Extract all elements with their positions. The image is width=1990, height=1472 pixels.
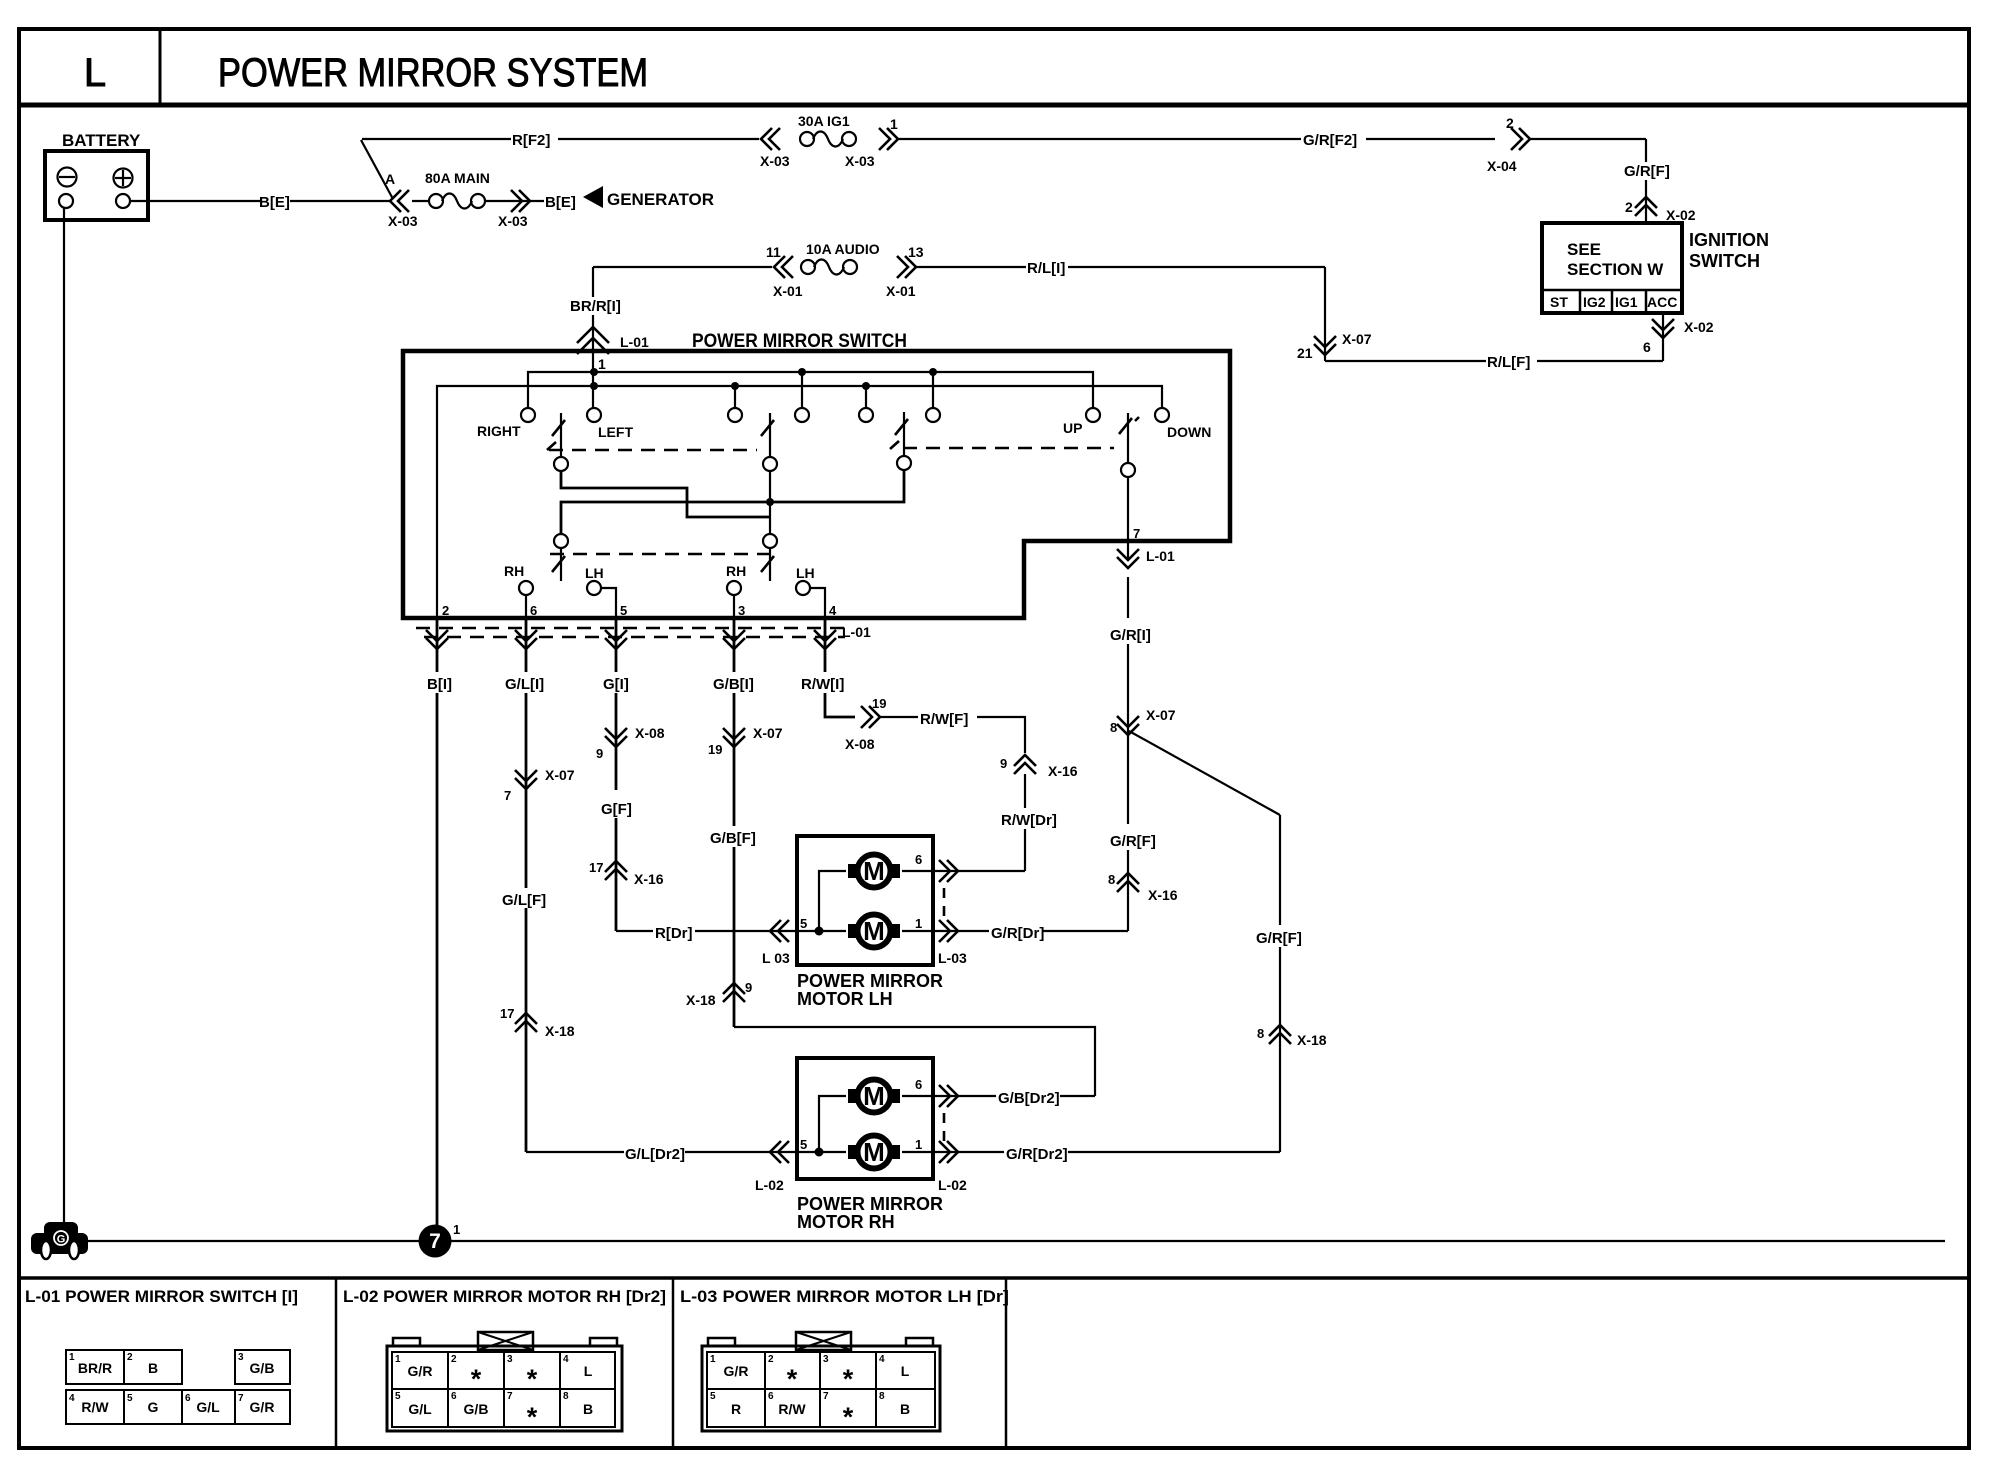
svg-text:5: 5 xyxy=(127,1393,133,1404)
svg-text:L 03: L 03 xyxy=(762,950,790,966)
power mirror motor LH xyxy=(797,836,1025,1009)
pin 7 G/R[I] inside box xyxy=(1128,477,1140,560)
svg-text:5: 5 xyxy=(710,1391,716,1402)
svg-text:X-07: X-07 xyxy=(1146,707,1176,723)
svg-text:X-03: X-03 xyxy=(498,213,528,229)
svg-text:L-03 POWER MIRROR MOTOR LH [Dr: L-03 POWER MIRROR MOTOR LH [Dr] xyxy=(680,1287,1009,1306)
svg-text:R/L[I]: R/L[I] xyxy=(1027,260,1065,277)
svg-text:SEE: SEE xyxy=(1567,240,1601,259)
connector X-04 pin 2 xyxy=(1511,128,1530,150)
svg-text:IG1: IG1 xyxy=(1615,294,1638,310)
svg-text:ST: ST xyxy=(1550,294,1568,310)
svg-text:IGNITION: IGNITION xyxy=(1689,230,1769,250)
svg-text:9: 9 xyxy=(596,746,603,761)
svg-text:9: 9 xyxy=(1000,756,1007,771)
coupler dashed lower xyxy=(550,553,779,555)
svg-text:13: 13 xyxy=(908,244,924,260)
svg-text:*: * xyxy=(843,1364,854,1394)
svg-text:2: 2 xyxy=(1506,115,1514,131)
svg-text:*: * xyxy=(471,1364,482,1394)
connector L-01 pin 7 arrow xyxy=(1117,548,1175,568)
svg-text:1: 1 xyxy=(915,916,922,931)
svg-text:3: 3 xyxy=(507,1354,513,1365)
pin 6 stub xyxy=(525,595,527,618)
svg-text:LH: LH xyxy=(796,565,815,581)
svg-text:G/L[I]: G/L[I] xyxy=(505,676,544,693)
svg-text:G[F]: G[F] xyxy=(601,801,632,818)
svg-text:30A IG1: 30A IG1 xyxy=(798,113,850,129)
svg-text:G/R[F]: G/R[F] xyxy=(1624,163,1670,180)
svg-text:X-16: X-16 xyxy=(1148,887,1178,903)
svg-text:G/R[I]: G/R[I] xyxy=(1110,627,1151,644)
svg-text:LH: LH xyxy=(585,565,604,581)
wire R/L[I] audio feed xyxy=(593,260,1325,277)
svg-text:SWITCH: SWITCH xyxy=(1689,251,1760,271)
svg-text:10A AUDIO: 10A AUDIO xyxy=(806,241,880,257)
svg-text:R/W: R/W xyxy=(81,1399,109,1415)
svg-text:X-18: X-18 xyxy=(545,1023,575,1039)
svg-text:R[F2]: R[F2] xyxy=(512,132,550,149)
svg-text:X-02: X-02 xyxy=(1684,319,1714,335)
svg-text:5: 5 xyxy=(620,603,627,618)
connector X-03 xyxy=(511,190,530,212)
svg-text:G/L: G/L xyxy=(408,1401,432,1417)
svg-text:G/R: G/R xyxy=(250,1399,275,1415)
svg-text:R/W[I]: R/W[I] xyxy=(801,676,844,693)
svg-text:X-07: X-07 xyxy=(545,767,575,783)
svg-text:G/L[Dr2]: G/L[Dr2] xyxy=(625,1146,685,1163)
svg-text:11: 11 xyxy=(766,244,781,260)
wire B[E] battery to generator xyxy=(130,194,576,211)
wire zigzag from blade1 common xyxy=(561,471,770,517)
svg-text:B: B xyxy=(583,1401,593,1417)
svg-text:6: 6 xyxy=(1643,339,1651,355)
wire G/R[F] right branch xyxy=(1129,731,1327,1152)
svg-text:8: 8 xyxy=(1257,1026,1264,1041)
svg-text:X-01: X-01 xyxy=(886,283,916,299)
connector table band xyxy=(19,1278,1969,1447)
svg-text:7: 7 xyxy=(429,1230,441,1253)
svg-text:2: 2 xyxy=(451,1354,457,1365)
svg-text:R/W[F]: R/W[F] xyxy=(920,711,968,728)
svg-text:R: R xyxy=(731,1401,741,1417)
fuse 30A IG1 xyxy=(800,132,856,147)
svg-text:G/B[F]: G/B[F] xyxy=(710,830,756,847)
svg-text:G/R[F]: G/R[F] xyxy=(1256,930,1302,947)
svg-text:G/R[F2]: G/R[F2] xyxy=(1303,132,1357,149)
connector L-01 pin 1 xyxy=(577,327,609,354)
bus 1 (pin 1 feed) xyxy=(528,368,1093,409)
svg-text:L-01: L-01 xyxy=(842,624,871,640)
connector X-01 pin 13 xyxy=(897,256,916,278)
wire R[F2] xyxy=(362,132,759,149)
svg-text:2: 2 xyxy=(442,603,449,618)
power mirror motor RH xyxy=(797,1058,967,1232)
svg-text:G/B[Dr2]: G/B[Dr2] xyxy=(998,1090,1060,1107)
svg-text:4: 4 xyxy=(563,1354,569,1365)
bus 2 (pin 2 feed) xyxy=(437,382,1162,618)
junction A diagonal from R[F2] xyxy=(361,140,393,199)
ignition switch xyxy=(1542,223,1769,313)
svg-text:X-16: X-16 xyxy=(634,871,664,887)
svg-text:POWER MIRROR: POWER MIRROR xyxy=(797,971,943,991)
svg-text:17: 17 xyxy=(500,1006,514,1021)
svg-text:G/R[Dr]: G/R[Dr] xyxy=(991,925,1044,942)
svg-text:*: * xyxy=(843,1402,854,1432)
svg-text:*: * xyxy=(787,1364,798,1394)
switch blade 3 (middle) xyxy=(890,412,908,456)
svg-text:6: 6 xyxy=(451,1391,457,1402)
svg-text:2: 2 xyxy=(127,1352,133,1363)
svg-text:6: 6 xyxy=(185,1393,191,1404)
wire from node 7 to right xyxy=(451,1240,1945,1242)
svg-text:ACC: ACC xyxy=(1647,294,1677,310)
wire R/W[I] / R/W[F] / R/W[Dr] xyxy=(801,618,1078,871)
svg-text:IG2: IG2 xyxy=(1583,294,1606,310)
svg-text:X-02: X-02 xyxy=(1666,207,1696,223)
svg-text:8: 8 xyxy=(1108,872,1115,887)
connector X-02 pin 6 xyxy=(1662,313,1664,361)
svg-text:B: B xyxy=(148,1360,158,1376)
svg-text:4: 4 xyxy=(879,1354,885,1365)
svg-text:6: 6 xyxy=(915,852,922,867)
connector L-02 drawing xyxy=(387,1332,622,1432)
connector X-02 pin 2 xyxy=(1635,197,1657,216)
wire battery negative to ground xyxy=(63,208,65,1226)
svg-text:19: 19 xyxy=(708,742,722,757)
svg-text:L-02: L-02 xyxy=(755,1177,784,1193)
svg-text:8: 8 xyxy=(1110,720,1117,735)
switch blade 2 (right/left LH) xyxy=(761,413,774,457)
svg-text:3: 3 xyxy=(238,1352,244,1363)
svg-text:6: 6 xyxy=(915,1077,922,1092)
svg-text:8: 8 xyxy=(879,1391,885,1402)
svg-text:X-08: X-08 xyxy=(845,736,875,752)
svg-text:R/L[F]: R/L[F] xyxy=(1487,354,1530,371)
wire BR/R[I] xyxy=(570,267,621,415)
svg-text:X-03: X-03 xyxy=(845,153,875,169)
svg-text:L-02 POWER MIRROR MOTOR RH [Dr: L-02 POWER MIRROR MOTOR RH [Dr2] xyxy=(343,1287,666,1306)
svg-text:7: 7 xyxy=(1133,526,1140,541)
svg-text:80A MAIN: 80A MAIN xyxy=(425,170,490,186)
wire G/B[Dr2] xyxy=(958,1090,1095,1107)
wire G/R[F2] xyxy=(898,132,1495,149)
svg-text:L: L xyxy=(84,51,106,95)
connector X-03 pin A xyxy=(390,190,409,212)
connector X-01 pin 11 xyxy=(774,256,793,278)
pin 5 stub xyxy=(601,588,616,618)
svg-text:X-08: X-08 xyxy=(635,725,665,741)
wire ground bus xyxy=(88,1240,419,1242)
pin numbers at box bottom xyxy=(442,603,837,618)
wire R/L[F] xyxy=(1325,354,1663,371)
svg-text:G/R: G/R xyxy=(408,1363,433,1379)
svg-text:G[I]: G[I] xyxy=(603,676,629,693)
svg-text:2: 2 xyxy=(1625,199,1633,215)
output circles xyxy=(519,581,810,595)
svg-text:5: 5 xyxy=(800,1137,807,1152)
generator xyxy=(583,186,714,209)
common circles under blades xyxy=(554,456,1135,477)
svg-text:L-01: L-01 xyxy=(620,334,649,350)
lower blade 1 xyxy=(552,548,565,581)
svg-text:X-18: X-18 xyxy=(1297,1032,1327,1048)
svg-text:1: 1 xyxy=(710,1354,716,1365)
svg-text:G: G xyxy=(57,1234,66,1246)
svg-text:G/B: G/B xyxy=(464,1401,489,1417)
svg-text:6: 6 xyxy=(530,603,537,618)
svg-text:X-07: X-07 xyxy=(753,725,783,741)
svg-text:1: 1 xyxy=(890,116,898,132)
svg-text:*: * xyxy=(527,1402,538,1432)
coupler dashed group 1 xyxy=(549,449,757,451)
connector X-03 pin (30A IG1 left) xyxy=(761,128,780,150)
svg-text:2: 2 xyxy=(768,1354,774,1365)
wire G/R[Dr2] xyxy=(958,1146,1280,1163)
wire G/L[I] / G/L[F] / G/L[Dr2] xyxy=(500,618,797,1193)
svg-text:B[E]: B[E] xyxy=(259,194,290,211)
svg-text:GENERATOR: GENERATOR xyxy=(607,190,714,209)
svg-text:4: 4 xyxy=(829,603,837,618)
terminal circles upper row xyxy=(521,408,1169,422)
svg-text:RIGHT: RIGHT xyxy=(477,423,521,439)
svg-text:POWER MIRROR SYSTEM: POWER MIRROR SYSTEM xyxy=(218,51,648,95)
svg-text:7: 7 xyxy=(823,1391,829,1402)
fuse 10A AUDIO xyxy=(801,260,857,275)
switch blade 1 (right/left RH) xyxy=(547,413,565,457)
pin 3 stub xyxy=(733,595,735,618)
svg-text:1: 1 xyxy=(598,356,606,372)
svg-text:LEFT: LEFT xyxy=(598,424,633,440)
svg-text:BATTERY: BATTERY xyxy=(62,131,141,150)
svg-text:X-03: X-03 xyxy=(760,153,790,169)
svg-text:21: 21 xyxy=(1297,345,1313,361)
svg-text:7: 7 xyxy=(504,788,511,803)
wire lower feed line xyxy=(561,470,904,534)
connector X-07 pin 21 xyxy=(1297,267,1372,361)
svg-text:7: 7 xyxy=(238,1393,244,1404)
connector X-03 pin 1 xyxy=(879,128,898,150)
svg-text:MOTOR RH: MOTOR RH xyxy=(797,1212,895,1232)
lower tier circles xyxy=(554,534,777,548)
svg-text:B[I]: B[I] xyxy=(427,676,452,693)
svg-text:G: G xyxy=(148,1399,159,1415)
svg-text:3: 3 xyxy=(738,603,745,618)
svg-text:R/W: R/W xyxy=(778,1401,806,1417)
svg-text:4: 4 xyxy=(69,1393,75,1404)
connector L-01 pin table xyxy=(66,1350,290,1424)
lower blade 2 xyxy=(761,548,774,581)
svg-text:L-01: L-01 xyxy=(1146,548,1175,564)
svg-text:L-03: L-03 xyxy=(938,950,967,966)
svg-text:X-04: X-04 xyxy=(1487,158,1517,174)
svg-text:G/R: G/R xyxy=(724,1363,749,1379)
ground G (body ground) xyxy=(31,1222,88,1259)
svg-text:X-07: X-07 xyxy=(1342,331,1372,347)
svg-text:B: B xyxy=(900,1401,910,1417)
wire G/R[F] to ignition xyxy=(1530,139,1670,223)
svg-text:G/L: G/L xyxy=(196,1399,220,1415)
svg-text:B[E]: B[E] xyxy=(545,194,576,211)
svg-text:G/L[F]: G/L[F] xyxy=(502,892,546,909)
svg-text:L: L xyxy=(584,1363,593,1379)
svg-text:G/B[I]: G/B[I] xyxy=(713,676,754,693)
coupler dashed group 2 xyxy=(903,447,1114,449)
svg-text:X-01: X-01 xyxy=(773,283,803,299)
svg-text:A: A xyxy=(385,171,395,187)
svg-text:6: 6 xyxy=(768,1391,774,1402)
svg-text:MOTOR LH: MOTOR LH xyxy=(797,989,893,1009)
svg-text:5: 5 xyxy=(800,916,807,931)
svg-text:19: 19 xyxy=(872,696,886,711)
svg-text:3: 3 xyxy=(823,1354,829,1365)
svg-text:L-02: L-02 xyxy=(938,1177,967,1193)
svg-text:1: 1 xyxy=(69,1352,75,1363)
svg-text:X-03: X-03 xyxy=(388,213,418,229)
svg-text:G/R[Dr2]: G/R[Dr2] xyxy=(1006,1146,1068,1163)
wire G/R[I] pin7 column xyxy=(958,577,1178,942)
svg-text:RH: RH xyxy=(726,563,746,579)
svg-text:5: 5 xyxy=(395,1391,401,1402)
svg-text:DOWN: DOWN xyxy=(1167,424,1211,440)
svg-text:1: 1 xyxy=(915,1137,922,1152)
battery xyxy=(45,131,148,220)
connector L-01 multi arrows below box xyxy=(416,624,871,649)
fuse 80A MAIN xyxy=(429,194,485,209)
svg-text:G/R[F]: G/R[F] xyxy=(1110,833,1156,850)
svg-text:L-01 POWER MIRROR SWITCH [I]: L-01 POWER MIRROR SWITCH [I] xyxy=(25,1287,298,1306)
node 7 (splice) xyxy=(419,1222,461,1258)
svg-text:R/W[Dr]: R/W[Dr] xyxy=(1001,812,1057,829)
RH LH labels xyxy=(504,563,815,581)
switch position labels xyxy=(477,420,1211,440)
svg-text:1: 1 xyxy=(395,1354,401,1365)
svg-text:*: * xyxy=(527,1364,538,1394)
svg-text:7: 7 xyxy=(507,1391,513,1402)
svg-text:BR/R[I]: BR/R[I] xyxy=(570,298,621,315)
svg-text:UP: UP xyxy=(1063,420,1082,436)
svg-text:POWER MIRROR: POWER MIRROR xyxy=(797,1194,943,1214)
pin 4 stub xyxy=(810,588,825,618)
svg-text:R[Dr]: R[Dr] xyxy=(655,925,693,942)
connector L-03 drawing xyxy=(702,1332,940,1432)
svg-text:X-16: X-16 xyxy=(1048,763,1078,779)
svg-text:8: 8 xyxy=(563,1391,569,1402)
svg-text:9: 9 xyxy=(745,980,752,995)
svg-text:X-18: X-18 xyxy=(686,992,716,1008)
svg-text:L: L xyxy=(901,1363,910,1379)
wire B[I] xyxy=(427,618,452,1225)
wire G[I] / G[F] / R[Dr] xyxy=(589,618,797,966)
svg-text:17: 17 xyxy=(589,860,603,875)
switch blade 4 (up/down) xyxy=(1119,413,1139,463)
svg-text:1: 1 xyxy=(453,1222,460,1237)
svg-text:SECTION W: SECTION W xyxy=(1567,260,1664,279)
wire G/B[I] / G/B[F] xyxy=(686,618,1095,1096)
svg-text:RH: RH xyxy=(504,563,524,579)
wire blade2 common down xyxy=(769,471,771,534)
svg-text:BR/R: BR/R xyxy=(78,1360,112,1376)
svg-text:G/B: G/B xyxy=(250,1360,275,1376)
